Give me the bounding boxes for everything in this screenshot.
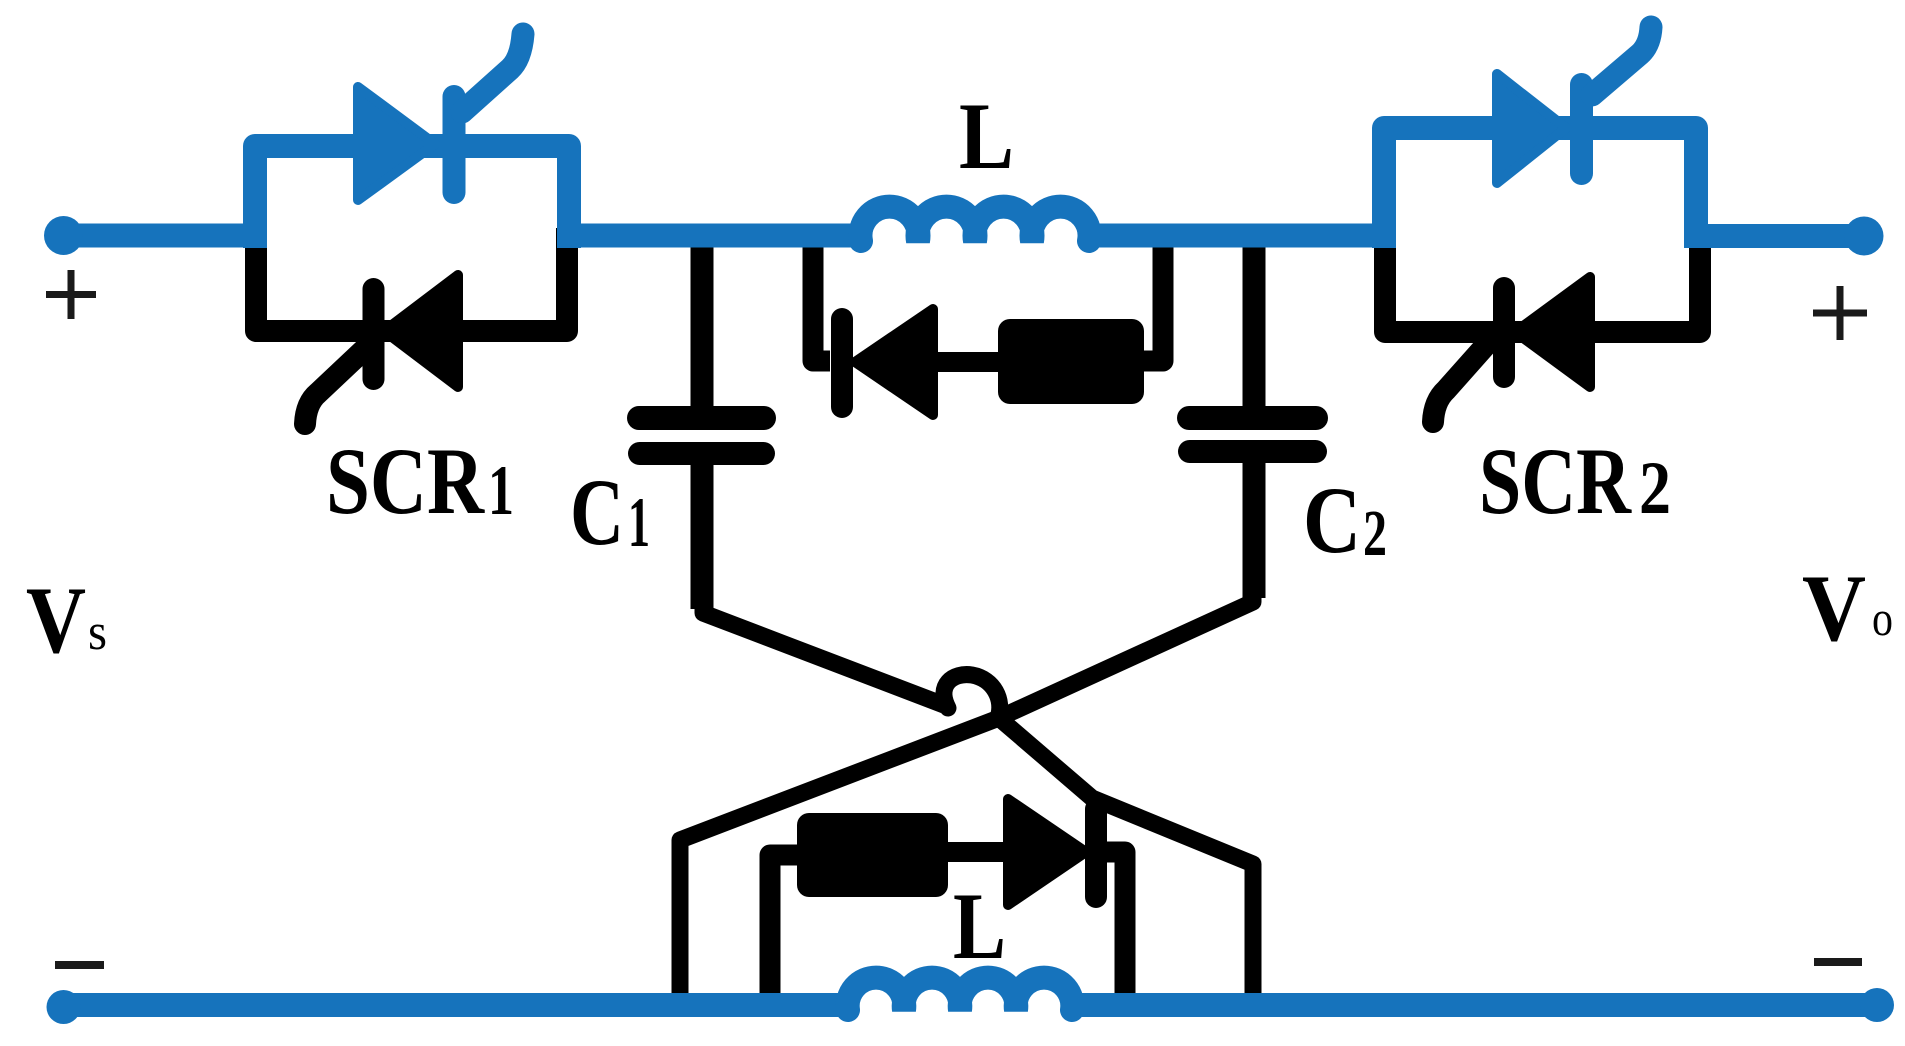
diode D2 (bottom branch): cathode bar [1085,798,1107,908]
freewheeling branch (bottom): right vertical wire [1100,852,1125,1000]
thyristor SCR2 (blue, forward): triangle pointing right [1497,74,1566,183]
cross wire C1 to bottom-right node: lower segment [1000,719,1253,1000]
svg-text:L: L [953,873,1006,979]
thyristor SCR2 (blue): gate lead [1592,27,1651,95]
label: + (left) [46,270,96,319]
thyristor SCR2 (black): triangle pointing left [1515,277,1590,387]
inductor L (top) [861,207,1090,241]
cross wire C1 to bottom-right node: upper segment [703,609,944,705]
svg-text:2: 2 [1639,447,1671,530]
capacitor C1: bottom plate [628,442,775,465]
svg-text:C: C [570,459,624,565]
diode D1 (top branch): triangle pointing left [855,309,933,415]
label: − (left, bottom) [55,961,104,969]
thyristor SCR1 (blue, forward): triangle pointing right [358,87,435,200]
diode D1 (top branch): cathode bar [831,308,853,418]
svg-text:C: C [1303,467,1361,573]
freewheeling branch (top): left vertical wire [813,240,830,361]
diode D2 (bottom branch): triangle pointing right [1008,799,1086,905]
svg-text:1: 1 [488,452,514,530]
wire: top rail, SCR1 to inductor L [557,224,863,248]
wire: top rail, dot to SCR1 [64,224,268,248]
freewheeling branch (bottom): left vertical wire [770,855,800,1000]
svg-text:1: 1 [628,484,650,562]
capacitor C1: wire from top rail [691,240,714,410]
svg-text:L: L [959,83,1014,189]
svg-text:2: 2 [1363,497,1387,570]
cross wire C2 to bottom-left node [680,598,1253,1000]
node: bottom-right terminal dot [1860,988,1894,1022]
wire: top rail, SCR2 to dot [1684,224,1864,248]
capacitor C1: top plate [627,406,776,430]
svg-text:o: o [1872,590,1893,646]
node: top-right terminal dot [1845,217,1884,256]
capacitor C2: top plate [1177,406,1328,430]
SCR2 blue loop box [1384,128,1696,248]
inductor L (bottom) [848,978,1073,1010]
svg-text:s: s [88,604,107,661]
wire: bottom rail, dot to inductor [64,993,852,1017]
wire diode to resistor [930,352,1005,372]
capacitor C1: lower wire [691,461,714,609]
capacitor C2: bottom plate [1178,440,1327,463]
SCR1 blue loop box [255,146,569,248]
thyristor SCR1 (black): triangle pointing left [384,275,458,387]
thyristor SCR1 (black): gate lead [305,344,370,424]
resistor R2 (bottom branch, solid body) [797,813,948,897]
wire resistor to diode [945,842,1010,862]
svg-text:SCR: SCR [1479,428,1632,534]
capacitor C2: wire from top rail [1243,240,1266,410]
thyristor SCR2 (black, reverse): cathode bar [1493,277,1515,388]
wire: bottom rail, inductor to dot [1069,993,1877,1017]
thyristor SCR1 (blue): gate lead [462,34,523,112]
wire hop loop at crossing [944,675,1000,718]
svg-text:SCR: SCR [326,428,485,534]
SCR2 black loop box [1385,228,1700,332]
thyristor SCR1 (black, reverse): cathode bar [363,278,385,390]
wire: top rail, inductor to SCR2 [1090,224,1396,248]
node: bottom-left terminal dot [47,990,81,1024]
freewheeling branch (top): right vertical wire [1138,240,1163,361]
label: + (right) [1813,286,1867,340]
thyristor SCR1 (blue): cathode bar [443,85,466,204]
label: − (right, bottom) [1814,958,1862,966]
node: top-left terminal dot [44,216,83,255]
SCR1 black loop box [256,228,567,331]
thyristor SCR2 (black): gate lead [1433,345,1486,422]
svg-text:V: V [26,567,86,673]
svg-text:V: V [1802,555,1866,661]
thyristor SCR2 (blue): cathode bar [1570,73,1593,185]
resistor R1 (top branch, solid body) [998,319,1144,404]
capacitor C2: lower wire [1243,459,1266,598]
